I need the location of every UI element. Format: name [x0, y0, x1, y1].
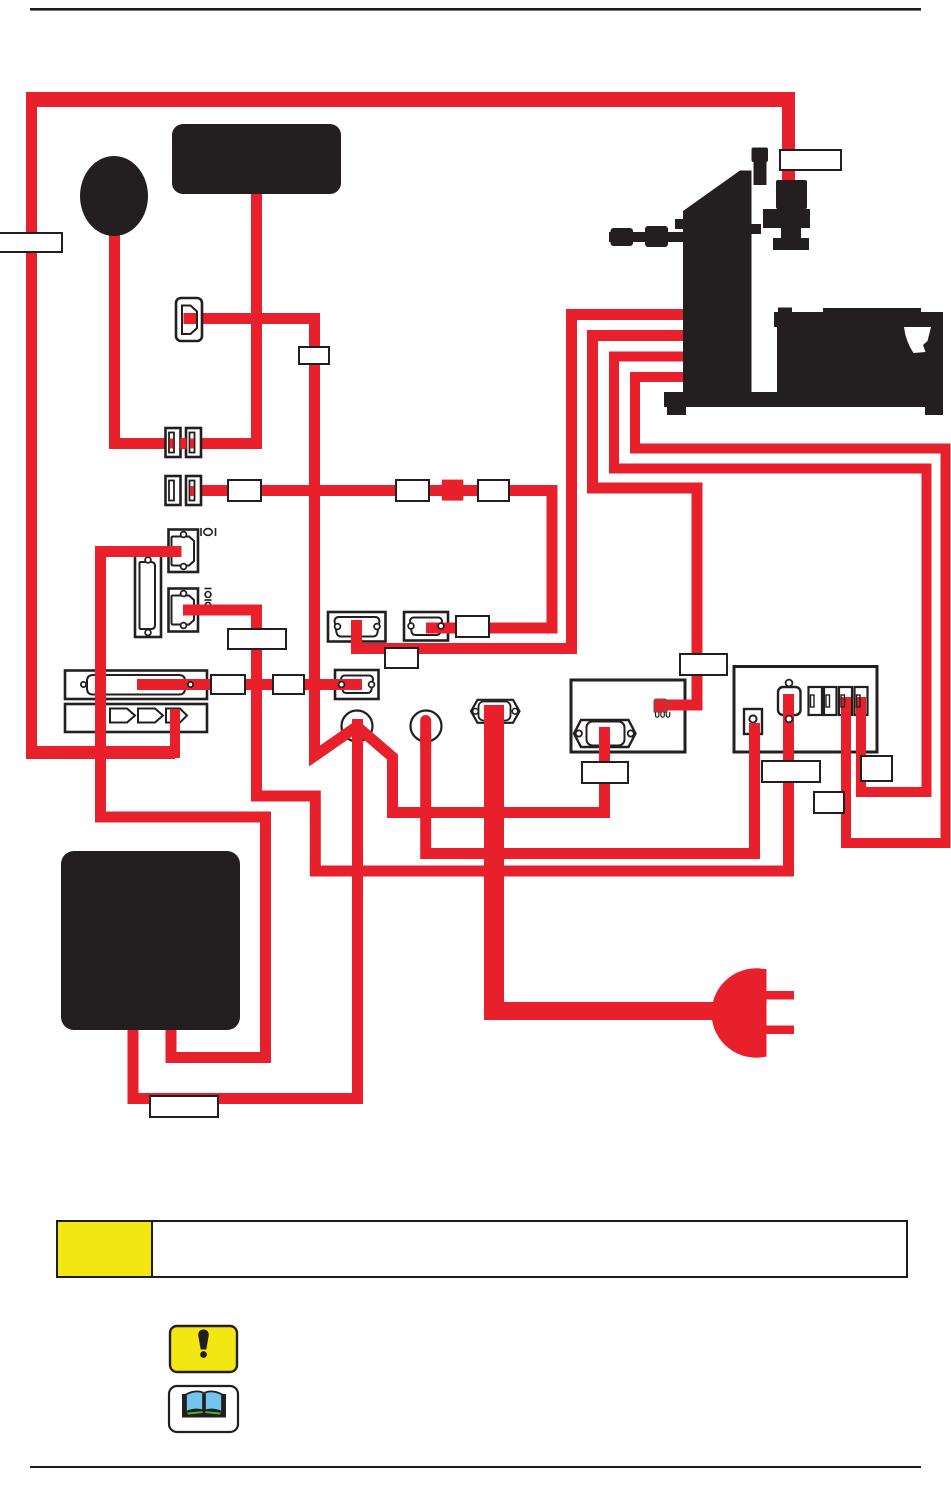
camera knob stem — [754, 161, 767, 185]
DVI connector box — [65, 671, 207, 700]
wire: camera loop bottom to card reader — [26, 746, 175, 759]
mini-USB connector — [176, 298, 202, 341]
screw over red: DB9 footswitch left — [339, 682, 345, 688]
wire: USB to hub chain — [190, 491, 552, 629]
screw over red: DVI right — [188, 682, 193, 687]
glyph |O| — [201, 528, 216, 536]
monitor — [61, 851, 240, 1030]
DB9 footswitch port (lower mid) — [335, 670, 379, 699]
serial port DB9 |O|O| — [169, 589, 199, 632]
notch over red: supply port4 — [857, 695, 861, 707]
wire: microscope port4 to supply port3 — [635, 377, 946, 843]
CTR electronics box — [571, 680, 685, 752]
screw over red: supply video bottom — [786, 716, 793, 723]
wire: card reader stub — [170, 709, 180, 758]
label: electronics mains — [582, 762, 628, 783]
PS/2 round connector B — [411, 711, 442, 742]
wire: microscope port2 to electronics — [593, 336, 698, 706]
label: supply port3 cable — [814, 792, 844, 813]
label: serial cable — [228, 629, 286, 649]
screws/details re-drawn over red — [188, 623, 860, 722]
wire: mains cable to plug — [484, 1002, 720, 1020]
camera body — [776, 180, 807, 209]
stage left tab — [778, 308, 792, 314]
label: stage port cable — [456, 616, 489, 637]
serial port DB9 |O| — [169, 530, 199, 573]
label: DVI cable 1 — [211, 675, 245, 694]
microscope base — [664, 392, 943, 407]
camera flange — [773, 238, 809, 250]
microscope right foot — [925, 407, 943, 415]
in-connector red fills over Z0 — [137, 480, 463, 690]
label: mouse cable — [0, 233, 62, 252]
microscope side tab — [750, 224, 761, 234]
label: camera cable — [780, 150, 841, 170]
warning icon — [170, 1326, 237, 1372]
USB connector pair 2 left — [166, 476, 181, 505]
manual book icon — [169, 1386, 238, 1432]
power plug — [712, 968, 794, 1057]
wire: microscope port1 to DB9 camera port — [357, 315, 693, 649]
legend bar yellow cell — [57, 1221, 152, 1277]
PS/2 round connector A — [342, 711, 373, 742]
wire: camera drop at microscope — [782, 99, 795, 186]
glyph |O|O| — [205, 589, 212, 612]
stage body — [788, 327, 943, 392]
port 2 — [824, 687, 837, 715]
wire: camera loop left vertical — [26, 99, 37, 754]
port 3 — [839, 687, 852, 715]
microscope — [609, 148, 943, 416]
page top rule — [30, 8, 921, 11]
label: supply port4 cable — [861, 756, 892, 781]
microscope focus knob outer — [611, 228, 634, 246]
mouse — [80, 156, 148, 236]
wire: keyboard to USB — [190, 188, 257, 444]
port 4 — [855, 687, 868, 715]
microscope eyepiece nub — [675, 219, 684, 229]
label: USB chain 1 — [228, 480, 261, 501]
microscope focus shaft — [609, 232, 684, 242]
plug body — [712, 968, 767, 1057]
label: supply video cable — [762, 761, 820, 782]
label: camera port cable — [385, 648, 418, 668]
notch over red: supply port3 — [841, 695, 845, 707]
stage top slab — [774, 312, 943, 327]
stage pillar — [777, 317, 788, 393]
wire: monitor link via DB9 — [101, 552, 266, 1058]
wire: PS/2 A to monitor — [133, 719, 358, 1099]
stage white notch — [904, 327, 931, 353]
USB connector pair 1 right — [180, 428, 201, 457]
dc jack connector — [744, 709, 762, 734]
wire: camera loop top run — [26, 92, 795, 107]
red mini connector with teeth — [654, 699, 667, 712]
wire: mouse to USB — [115, 225, 194, 444]
screw over red: DB9 stage right — [438, 623, 444, 629]
video connector — [778, 687, 801, 715]
page bottom rule — [30, 1466, 921, 1468]
wire: PS/2 B to supply jack — [426, 723, 755, 854]
DB9 stage port (mid, horizontal cable) — [404, 612, 448, 641]
port 1 — [809, 687, 823, 715]
USB connector pair 2 right — [186, 476, 201, 505]
stage holder line — [823, 308, 921, 313]
label: DVI cable 2 — [273, 675, 304, 694]
DB9 camera port (mid left, vertical cable) — [328, 612, 386, 642]
red fill: DVI to footswitch DB9 wire — [137, 679, 362, 690]
power connector in electronics box — [654, 699, 670, 717]
AC mains inlet on PC — [471, 700, 520, 723]
label: USB chain 2 — [396, 480, 429, 501]
supply unit box (right) — [734, 667, 877, 753]
plug pin lower — [767, 1026, 795, 1035]
wire: mini-USB to PS/2 A and on to electronics inlet — [196, 319, 605, 813]
media card reader box — [65, 704, 207, 732]
wire: serial to supply video — [183, 610, 789, 871]
plug pin upper — [767, 991, 795, 1000]
legend bar — [57, 1221, 907, 1277]
label: mini-USB cable — [299, 347, 329, 364]
parallel port DB25 — [135, 554, 161, 637]
microscope left foot — [667, 407, 686, 415]
camera top knob — [752, 148, 769, 163]
label: USB chain 3 — [478, 480, 509, 501]
microscope focus knob inner — [645, 226, 668, 247]
microscope stand column with head — [683, 171, 752, 394]
label: monitor cable — [150, 1096, 218, 1117]
wire: PS/2 B stub tip — [420, 721, 431, 746]
camera mount block — [763, 209, 810, 228]
wire: mains cable vertical — [484, 705, 504, 1010]
red coupler on USB chain — [442, 480, 464, 501]
wire: microscope port3 to supply port4 — [614, 357, 927, 793]
keyboard — [172, 124, 341, 194]
label: electronics cable — [680, 654, 727, 675]
camera tube — [781, 228, 801, 239]
USB connector pair 1 left — [166, 428, 181, 457]
